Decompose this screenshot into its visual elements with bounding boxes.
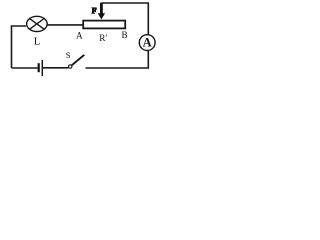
svg-text:L: L xyxy=(34,35,41,47)
wire: ammeter to bottom-right corner, left along bottom to switch contact xyxy=(86,50,149,68)
switch S (pivot circle and open blade) xyxy=(69,55,85,68)
label F xyxy=(92,8,97,14)
svg-text:R′: R′ xyxy=(99,33,107,43)
wire: lamp to rheostat terminal A xyxy=(47,24,83,26)
svg-text:B: B xyxy=(122,30,128,40)
svg-text:A: A xyxy=(143,35,152,49)
battery cell (short negative plate, long positive plate) xyxy=(39,60,43,76)
wire: bottom-left corner to battery negative plate xyxy=(12,67,38,69)
ammeter A1 (circle with A) xyxy=(139,35,155,51)
wire: top-left corner (lamp left lead, down left side to bottom-left corner) xyxy=(12,26,27,68)
lamp L (circle with X) xyxy=(27,16,48,31)
rheostat slider arrow F xyxy=(98,3,105,20)
wire: slider to top-right corner, down right side to ammeter xyxy=(101,3,148,35)
svg-text:A: A xyxy=(76,31,83,41)
rheostat R' body xyxy=(83,21,125,29)
wire: battery positive plate to switch pivot xyxy=(42,67,68,69)
svg-text:S: S xyxy=(66,50,71,60)
